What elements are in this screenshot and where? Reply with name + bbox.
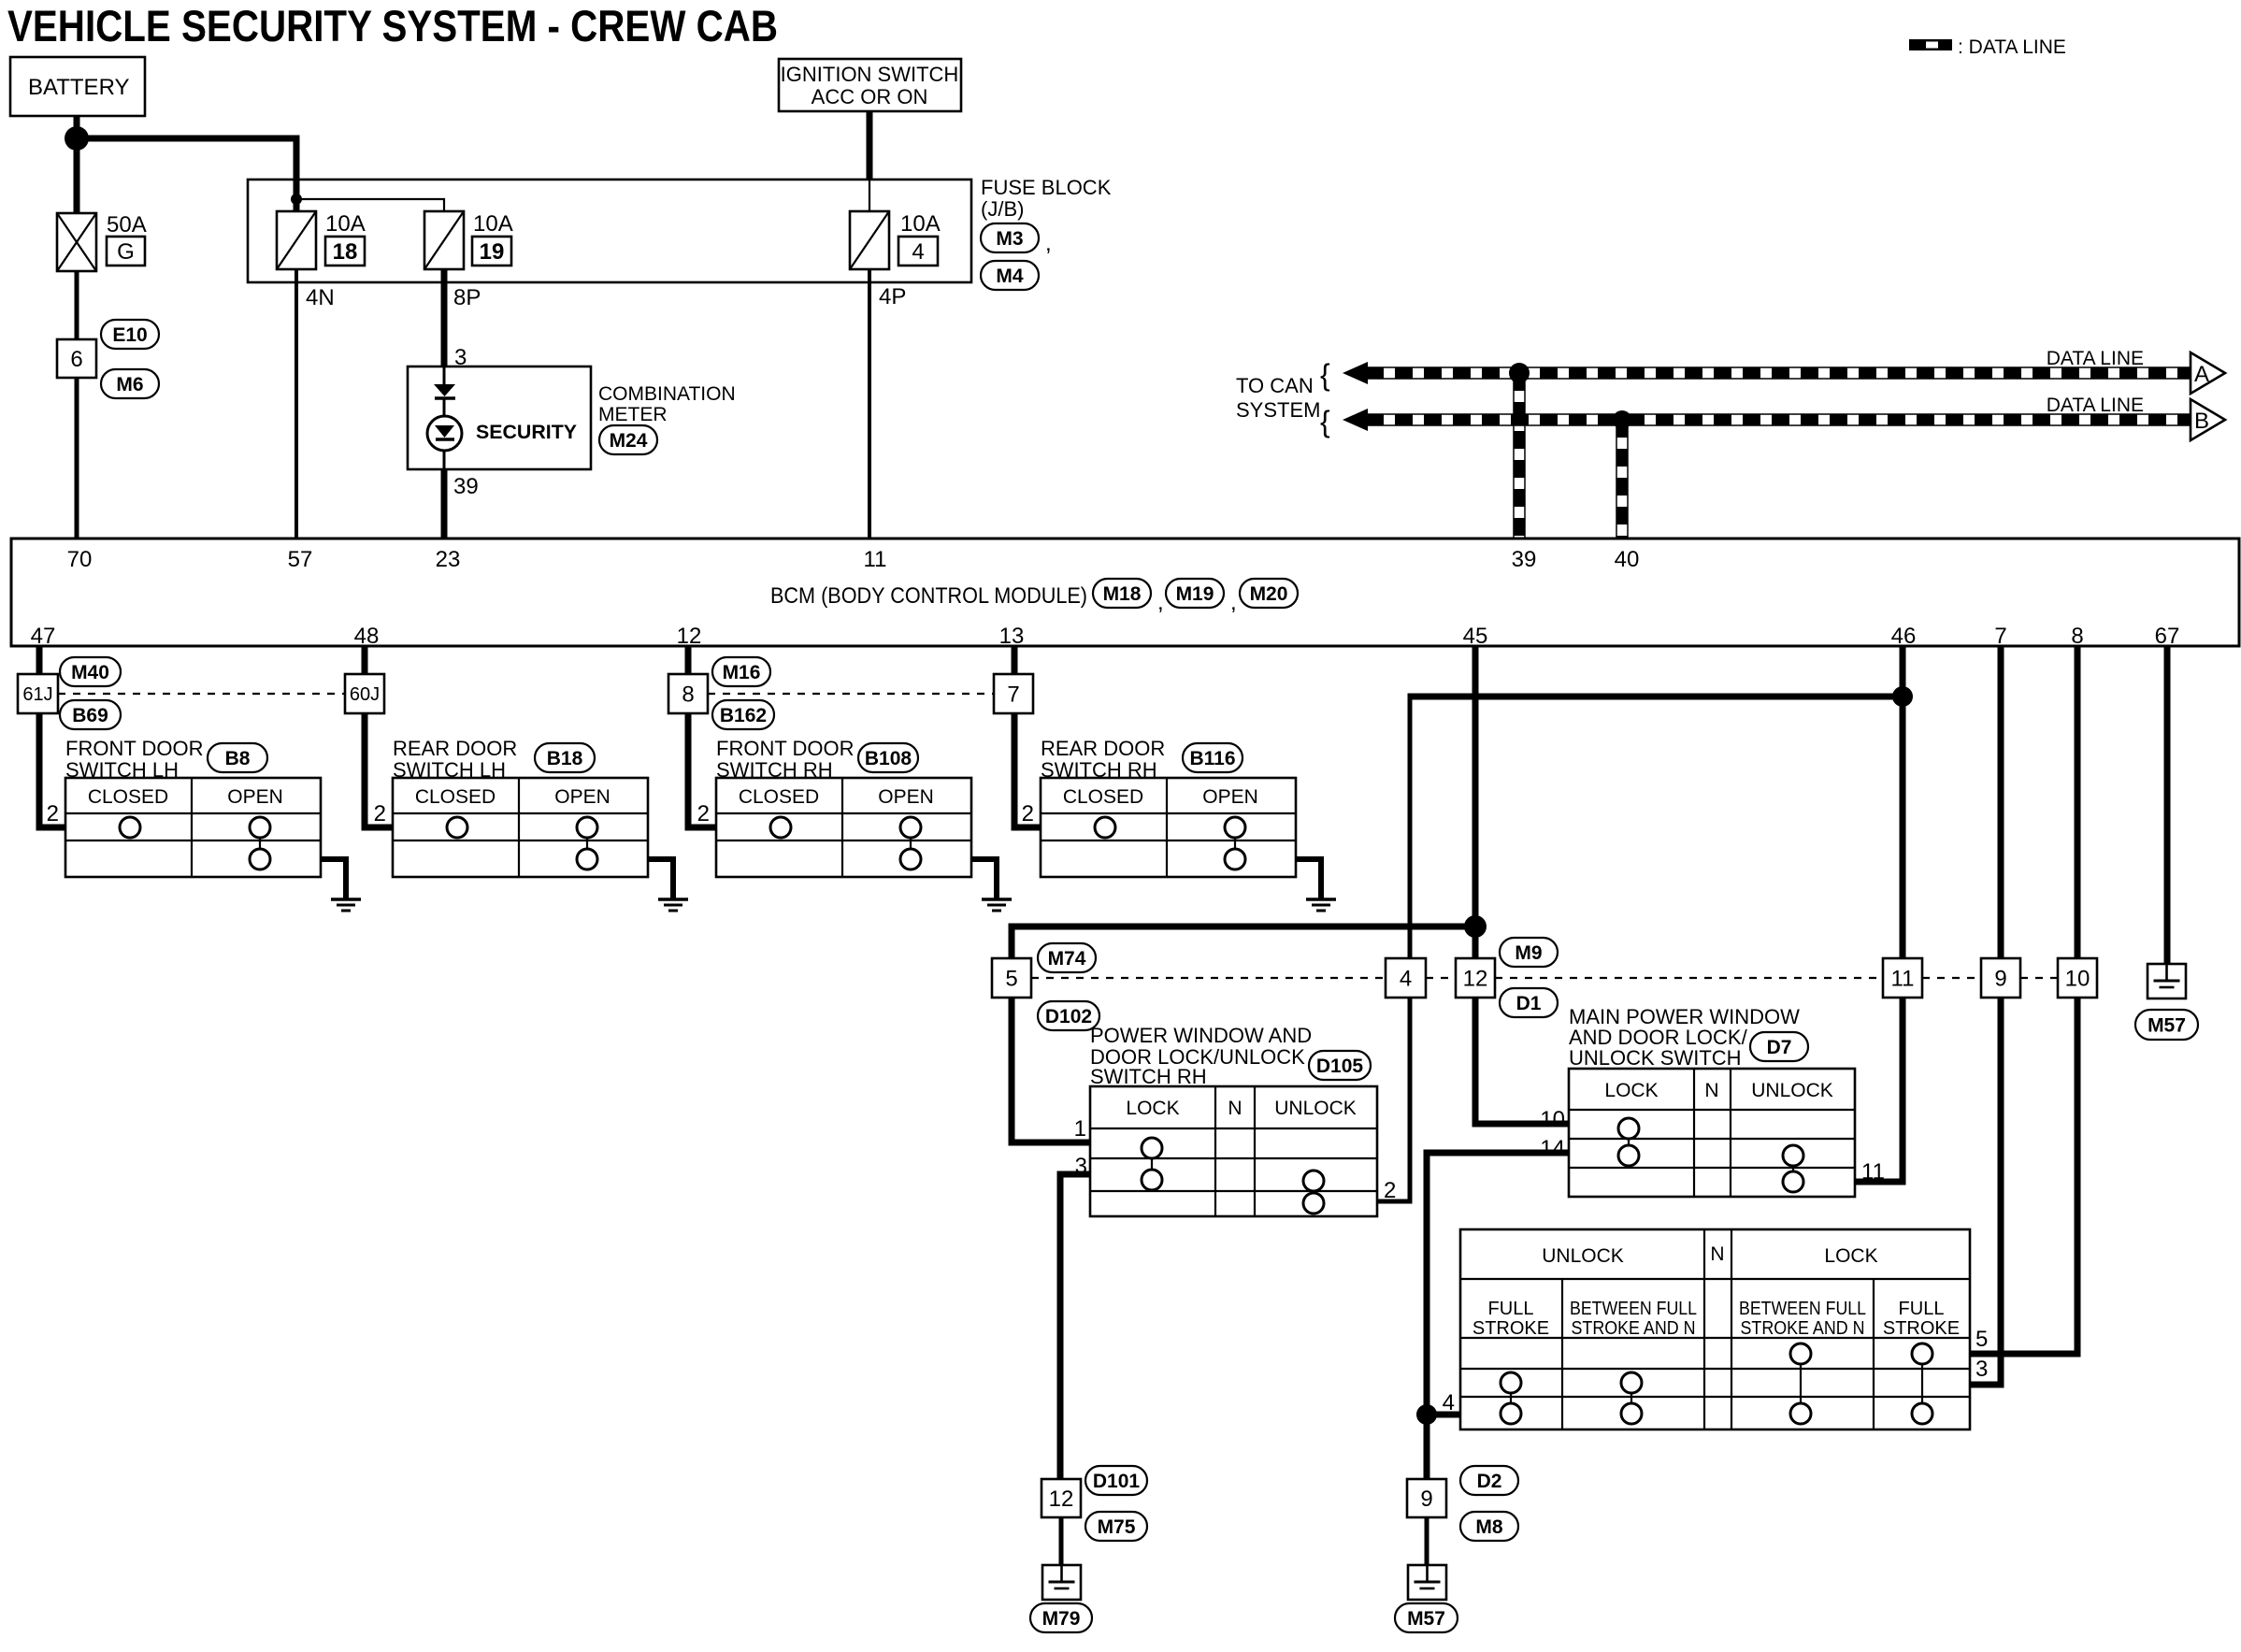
svg-text:POWER WINDOW AND: POWER WINDOW AND [1090, 1024, 1312, 1047]
wire junction to fuse 19 [296, 199, 444, 211]
svg-text:LOCK: LOCK [1824, 1245, 1877, 1267]
svg-text:TO CAN: TO CAN [1236, 374, 1314, 397]
svg-text:N: N [1710, 1243, 1724, 1265]
svg-text:CLOSED: CLOSED [415, 786, 496, 808]
wire pin 2 into front door switch RH [688, 713, 716, 827]
connector B69 [60, 700, 121, 729]
connector 12 (D1) [1456, 958, 1495, 998]
wire ignition switch to fuse 4 [867, 111, 873, 180]
connector D1 [1500, 988, 1558, 1017]
legend: data line symbol [1909, 39, 1952, 50]
svg-text:M8: M8 [1475, 1516, 1502, 1538]
svg-text:11: 11 [864, 547, 887, 572]
svg-text:2: 2 [697, 801, 710, 826]
svg-text:STROKE: STROKE [1472, 1318, 1549, 1339]
wire BCM 12 to connector 8 [685, 646, 692, 674]
harness dash 4-12 [1426, 977, 1456, 979]
svg-text:REAR DOOR: REAR DOOR [393, 737, 517, 760]
ground (rear door switch RH) [1306, 898, 1336, 901]
node fuse-block internal junction [291, 194, 302, 205]
connector D105 [1309, 1051, 1371, 1080]
fuse 50A G [57, 213, 96, 271]
svg-text:3: 3 [1075, 1154, 1087, 1179]
connector B116 [1183, 743, 1243, 772]
svg-text:M57: M57 [2148, 1014, 2186, 1036]
front door switch LH table [65, 778, 321, 877]
svg-text:2: 2 [1022, 801, 1034, 826]
wire D105 pin 2 to connector 4 line [1377, 998, 1410, 1201]
wire table pin 3 to connector 9 line [1970, 998, 2001, 1385]
connector 9 (D2/M8) [1407, 1479, 1446, 1517]
contacts lock between [1790, 1343, 1811, 1364]
svg-text:G: G [117, 239, 135, 265]
svg-text:A: A [2194, 362, 2209, 387]
arrow B terminal [2191, 399, 2225, 440]
svg-text:FRONT DOOR: FRONT DOOR [65, 737, 203, 760]
wire BCM 47 to connector 61J [36, 646, 43, 674]
svg-text:70: 70 [67, 547, 93, 572]
svg-text:STROKE AND N: STROKE AND N [1741, 1318, 1865, 1339]
svg-text:8P: 8P [453, 285, 481, 310]
wire connector 12 to D7 pin 10 [1475, 998, 1569, 1124]
wire connector 6 to BCM pin 70 [75, 378, 79, 539]
svg-text:4: 4 [1443, 1390, 1455, 1415]
wire BCM 7 to connector 9 [1998, 646, 2004, 958]
connector 4 [1386, 958, 1426, 998]
connector M57 (lower) [1395, 1603, 1458, 1632]
connector M20 [1240, 579, 1298, 608]
wire table pin 5 to connector 10 line [1970, 998, 2077, 1354]
connector M3 [981, 223, 1039, 252]
wire connector 12 to ground M79 [1059, 1517, 1064, 1565]
wire 8P fuse 19 to combination meter [441, 269, 448, 366]
svg-text:M9: M9 [1515, 942, 1542, 964]
wire 4N fuse 18 to BCM pin 57 [294, 269, 298, 539]
svg-text:LOCK: LOCK [1604, 1080, 1658, 1101]
wire meter pin 39 to BCM pin 23 [441, 469, 448, 539]
wire pin 2 into rear door switch RH [1014, 713, 1041, 827]
svg-text:OPEN: OPEN [554, 786, 611, 808]
wire 4P fuse 4 to BCM pin 11 [868, 269, 871, 539]
svg-text:COMBINATION: COMBINATION [598, 383, 736, 405]
lock stroke table [1460, 1229, 1970, 1429]
svg-text:M75: M75 [1098, 1516, 1136, 1538]
connector 9 [1981, 958, 2020, 998]
svg-text:BATTERY: BATTERY [28, 75, 129, 100]
PW switch RH table [1090, 1086, 1377, 1216]
svg-text:48: 48 [354, 624, 380, 649]
connector M8 [1460, 1512, 1518, 1541]
connector 60J [345, 674, 384, 713]
svg-text:BCM (BODY CONTROL MODULE): BCM (BODY CONTROL MODULE) [770, 583, 1087, 609]
wire BCM 46 down [1900, 646, 1906, 958]
fuse 4 10A [850, 211, 889, 269]
svg-text:10A: 10A [900, 211, 941, 237]
svg-text:11: 11 [1891, 966, 1915, 991]
node line B pin 40 [1613, 410, 1631, 429]
connector 7 [994, 674, 1033, 713]
svg-text:7: 7 [1994, 624, 2006, 649]
svg-text:9: 9 [1994, 966, 2006, 991]
svg-text:{: { [1320, 358, 1330, 392]
connector 11 [1883, 958, 1922, 998]
svg-text:LOCK: LOCK [1126, 1098, 1179, 1119]
combination meter box [408, 366, 591, 469]
svg-text:3: 3 [1975, 1357, 1988, 1382]
svg-text:UNLOCK: UNLOCK [1274, 1098, 1357, 1119]
svg-text:8: 8 [2071, 624, 2083, 649]
svg-text:SWITCH RH: SWITCH RH [1090, 1065, 1207, 1088]
security indicator LED [427, 416, 462, 451]
svg-text:VEHICLE SECURITY SYSTEM - CREW: VEHICLE SECURITY SYSTEM - CREW CAB [7, 1, 778, 50]
wire BCM 8 to connector 10 [2075, 646, 2081, 958]
node 46 branch [1892, 686, 1913, 707]
svg-text:M24: M24 [610, 430, 648, 452]
connector M74 [1038, 943, 1096, 972]
svg-text:BETWEEN FULL: BETWEEN FULL [1739, 1299, 1866, 1319]
svg-text:2: 2 [47, 801, 59, 826]
wire battery junction to fuse block [77, 138, 296, 211]
wire connector 5 to D105 pin 1 [1012, 998, 1090, 1142]
svg-text:DATA LINE: DATA LINE [2047, 348, 2144, 369]
svg-text:46: 46 [1891, 624, 1917, 649]
svg-text:61J: 61J [22, 684, 52, 705]
svg-text:SYSTEM: SYSTEM [1236, 398, 1320, 422]
contacts unlock (D105) [1303, 1171, 1324, 1191]
svg-text:METER: METER [598, 404, 668, 425]
svg-text:M18: M18 [1103, 583, 1142, 605]
svg-text:18: 18 [333, 239, 358, 265]
fuse 19 10A [424, 211, 464, 269]
svg-text:39: 39 [1512, 547, 1537, 572]
svg-text:CLOSED: CLOSED [739, 786, 819, 808]
ignition switch box [779, 59, 961, 111]
connector B8 [208, 743, 267, 772]
contacts lock (D7) [1618, 1118, 1639, 1139]
svg-text:ACC OR ON: ACC OR ON [812, 85, 928, 108]
ground M79 [1042, 1565, 1081, 1600]
svg-text:UNLOCK: UNLOCK [1751, 1080, 1833, 1101]
front door switch RH table [716, 778, 971, 877]
connector 6 [57, 339, 96, 378]
wire front door switch RH to ground [971, 859, 997, 898]
connector M18 [1093, 579, 1151, 608]
svg-text:B108: B108 [865, 748, 912, 769]
connector M24 [599, 425, 657, 454]
svg-text:6: 6 [70, 347, 82, 372]
wire 50A fuse to connector 6 [75, 271, 79, 339]
svg-text:M74: M74 [1048, 948, 1086, 970]
svg-text:FULL: FULL [1488, 1299, 1534, 1319]
svg-text:M19: M19 [1176, 583, 1214, 605]
wire connector 9 to ground M57 [1425, 1517, 1429, 1565]
connector M16 [712, 657, 770, 686]
data line A (wire) [1366, 366, 2191, 368]
svg-text:E10: E10 [112, 324, 147, 346]
svg-text:60J: 60J [350, 684, 380, 705]
connector 8 [668, 674, 708, 713]
svg-text:47: 47 [31, 624, 56, 649]
wire rear door switch RH to ground [1296, 859, 1321, 898]
svg-text:,: , [1230, 590, 1237, 615]
svg-text:9: 9 [1420, 1487, 1432, 1512]
svg-text:M16: M16 [723, 662, 761, 683]
svg-text:STROKE AND N: STROKE AND N [1572, 1318, 1696, 1339]
svg-text:D102: D102 [1045, 1006, 1092, 1027]
connector M9 [1500, 938, 1558, 967]
fuse block (J/B) box [248, 180, 971, 282]
harness dash 12-11 [1495, 977, 1883, 979]
svg-text:23: 23 [436, 547, 461, 572]
connector M6 [101, 369, 159, 398]
connector E10 [101, 320, 159, 349]
svg-text:N: N [1228, 1098, 1242, 1119]
node line A pin 39 [1509, 363, 1530, 383]
data line B (wire) [1366, 413, 2191, 415]
svg-text:FUSE BLOCK: FUSE BLOCK [981, 176, 1112, 199]
svg-text:19: 19 [480, 239, 505, 265]
svg-text:39: 39 [453, 474, 479, 499]
svg-text:M40: M40 [71, 662, 109, 683]
svg-text:12: 12 [677, 624, 702, 649]
svg-text:11: 11 [1861, 1159, 1885, 1185]
svg-text:4: 4 [912, 239, 924, 265]
svg-text:M6: M6 [116, 374, 143, 395]
svg-text:5: 5 [1005, 966, 1017, 991]
svg-text:REAR DOOR: REAR DOOR [1041, 737, 1165, 760]
connector B18 [535, 743, 595, 772]
svg-text:M3: M3 [996, 228, 1023, 250]
svg-text:13: 13 [999, 624, 1025, 649]
wire BCM 67 to ground [2164, 646, 2171, 964]
svg-text:B69: B69 [72, 705, 108, 726]
wire (data) BCM pin 39 [1513, 373, 1515, 539]
svg-text:7: 7 [1007, 682, 1019, 707]
contacts unlock between [1621, 1372, 1642, 1393]
arrowhead A left [1343, 362, 1368, 384]
svg-text:DATA LINE: DATA LINE [2047, 395, 2144, 416]
connector M79 [1030, 1603, 1092, 1632]
svg-text:OPEN: OPEN [878, 786, 934, 808]
wire BCM 45 to connector 12 (D1) [1472, 646, 1479, 958]
svg-text:10: 10 [2065, 966, 2090, 991]
svg-text:UNLOCK: UNLOCK [1542, 1245, 1624, 1267]
wire pin 2 into rear door switch LH [365, 713, 393, 827]
wire D7 pin 14 branch [1427, 1153, 1569, 1479]
wire D105 pin 3 down [1060, 1174, 1090, 1479]
svg-text:B8: B8 [225, 748, 251, 769]
connector M40 [60, 657, 121, 686]
wire D7 pin 11 to connector 11 [1855, 998, 1903, 1182]
svg-text:14: 14 [1540, 1136, 1565, 1161]
svg-text:BETWEEN FULL: BETWEEN FULL [1570, 1299, 1697, 1319]
ground (front door switch RH) [982, 898, 1012, 901]
svg-text:(J/B): (J/B) [981, 197, 1024, 221]
main PW switch table [1569, 1069, 1855, 1197]
svg-text:57: 57 [288, 547, 313, 572]
svg-text:STROKE: STROKE [1883, 1318, 1960, 1339]
svg-text:D2: D2 [1477, 1471, 1502, 1492]
svg-text:40: 40 [1615, 547, 1640, 572]
contacts lock full stroke [1912, 1343, 1932, 1364]
connector 5 [992, 958, 1031, 998]
svg-text:67: 67 [2155, 624, 2180, 649]
svg-text:50A: 50A [107, 212, 147, 237]
ground (rear door switch LH) [658, 898, 688, 901]
wire pin 2 into front door switch LH [39, 713, 65, 827]
svg-text:4P: 4P [879, 284, 906, 309]
svg-text:CLOSED: CLOSED [1063, 786, 1143, 808]
connector D7 [1750, 1032, 1808, 1061]
junction node battery feed [65, 126, 89, 151]
svg-text:M79: M79 [1042, 1608, 1081, 1630]
svg-text:OPEN: OPEN [227, 786, 283, 808]
wire junction to table pin 4 [1427, 1412, 1460, 1418]
svg-text:12: 12 [1049, 1487, 1074, 1512]
svg-text:12: 12 [1463, 966, 1488, 991]
svg-text:10: 10 [1540, 1107, 1565, 1132]
wire front door switch LH to ground [321, 859, 346, 898]
rear door switch RH table [1041, 778, 1296, 877]
wire battery down [74, 116, 80, 213]
connector M19 [1166, 579, 1224, 608]
wire BCM 48 to connector 60J [362, 646, 368, 674]
wire branch to connector 5 [1012, 927, 1475, 958]
svg-text:FULL: FULL [1899, 1299, 1945, 1319]
svg-text:D105: D105 [1316, 1056, 1364, 1077]
harness dash 61J-60J [58, 693, 345, 695]
svg-text:8: 8 [682, 682, 694, 707]
rear door switch LH table [393, 778, 648, 877]
svg-text:SECURITY: SECURITY [476, 422, 577, 443]
svg-text:4: 4 [1400, 966, 1412, 991]
svg-text:B: B [2194, 409, 2209, 434]
ground (front door switch LH) [331, 898, 361, 901]
svg-text:M20: M20 [1250, 583, 1288, 605]
connector M4 [981, 261, 1039, 290]
wire junction to connector 9 (D2) [1424, 1415, 1430, 1479]
connector B108 [858, 743, 918, 772]
svg-text:IGNITION SWITCH: IGNITION SWITCH [781, 63, 959, 86]
svg-text:1: 1 [1074, 1116, 1086, 1142]
ground M57 (BCM 67) [2148, 964, 2186, 998]
wire branch 46 to connector 4 [1408, 694, 1903, 700]
connector 61J [18, 674, 58, 713]
arrow A terminal [2191, 352, 2225, 394]
svg-text:OPEN: OPEN [1202, 786, 1258, 808]
diode D (meter input) [434, 384, 455, 396]
ground M57 (lower) [1408, 1565, 1446, 1600]
battery [10, 57, 145, 116]
svg-text:4N: 4N [306, 285, 335, 310]
wire (data) BCM pin 40 [1616, 420, 1617, 539]
contacts lock (D105) [1142, 1138, 1162, 1158]
svg-text:FRONT DOOR: FRONT DOOR [716, 737, 854, 760]
connector M57 [2135, 1010, 2198, 1040]
harness dash 11-9 [1922, 977, 1981, 979]
harness dash 5-4 [1031, 977, 1386, 979]
svg-text:N: N [1704, 1080, 1718, 1101]
node 45/5 branch [1464, 915, 1487, 938]
svg-text:B162: B162 [720, 705, 767, 726]
svg-text:,: , [1157, 590, 1164, 615]
svg-text:,: , [1045, 231, 1052, 256]
svg-text:2: 2 [1384, 1178, 1396, 1203]
svg-text:: DATA LINE: : DATA LINE [1958, 36, 2066, 58]
svg-text:45: 45 [1463, 624, 1488, 649]
connector D2 [1460, 1466, 1518, 1495]
connector B162 [712, 700, 774, 729]
wire rear door switch LH to ground [648, 859, 673, 898]
BCM (body control module) [11, 539, 2239, 646]
connector 10 [2058, 958, 2097, 998]
connector 12 (D101/M75) [1041, 1479, 1081, 1517]
svg-text:B18: B18 [547, 748, 583, 769]
svg-text:D101: D101 [1093, 1471, 1141, 1492]
svg-text:UNLOCK SWITCH: UNLOCK SWITCH [1569, 1046, 1742, 1070]
svg-text:2: 2 [374, 801, 386, 826]
harness dash 9-10 [2020, 977, 2058, 979]
connector D102 [1038, 1001, 1099, 1030]
svg-text:10A: 10A [325, 211, 366, 237]
svg-text:CLOSED: CLOSED [88, 786, 168, 808]
svg-text:M4: M4 [996, 266, 1023, 287]
contacts unlock (D7) [1783, 1145, 1803, 1166]
connector D101 [1085, 1466, 1147, 1495]
svg-text:10A: 10A [473, 211, 513, 237]
svg-text:{: { [1320, 405, 1330, 438]
svg-text:5: 5 [1975, 1327, 1988, 1352]
node pin 4 junction [1416, 1404, 1437, 1425]
wire BCM 13 to connector 7 [1012, 646, 1018, 674]
contacts unlock full stroke [1501, 1372, 1521, 1393]
fuse 18 10A [277, 211, 316, 269]
connector M75 [1085, 1512, 1147, 1541]
svg-text:M57: M57 [1407, 1608, 1445, 1630]
svg-text:B116: B116 [1189, 748, 1235, 769]
svg-text:D1: D1 [1516, 993, 1542, 1014]
arrowhead B left [1343, 409, 1368, 431]
harness dash 8-7 [708, 693, 994, 695]
svg-text:D7: D7 [1767, 1037, 1792, 1058]
